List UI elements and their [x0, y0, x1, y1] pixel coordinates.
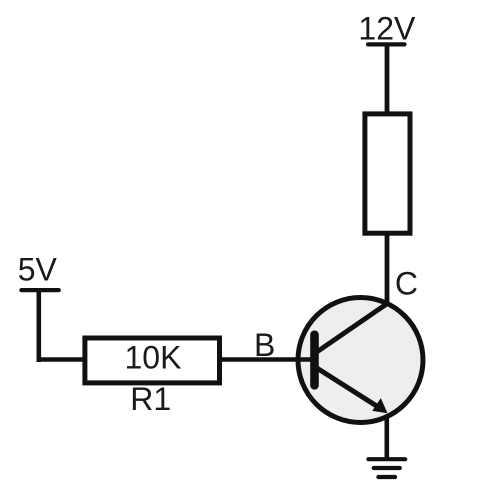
ground symbol bar 2 [374, 466, 400, 470]
wire 5V rail down [36, 290, 41, 362]
svg-text:5V: 5V [18, 252, 58, 288]
ground symbol bar 1 [368, 457, 405, 461]
transistor collector line [316, 302, 390, 353]
svg-text:R1: R1 [130, 381, 171, 417]
transistor base bar [310, 335, 319, 386]
ground symbol bar 3 [378, 475, 395, 479]
12V supply rail bar [368, 42, 405, 46]
svg-text:10K: 10K [125, 339, 182, 375]
wire corner to resistor R1 [37, 357, 86, 362]
resistor (collector load, unlabeled) [365, 114, 410, 233]
wire R1 to base (node B) [220, 357, 313, 362]
5V supply rail bar [21, 288, 58, 292]
wire resistor to transistor collector [385, 233, 390, 307]
wire 12V rail to collector resistor [385, 44, 390, 114]
transistor emitter arrowhead [372, 398, 387, 413]
resistor R1 body [85, 338, 220, 383]
svg-text:C: C [395, 266, 418, 302]
svg-text:12V: 12V [358, 11, 416, 47]
transistor emitter line [316, 368, 379, 408]
wire emitter to ground [384, 416, 389, 459]
svg-text:B: B [254, 327, 275, 363]
transistor Q1 (NPN) body circle [298, 298, 423, 423]
